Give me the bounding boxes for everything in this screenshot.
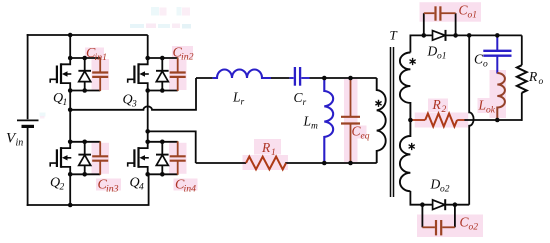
svg-text:L: L [232,90,241,105]
wire secondary top lead [410,35,521,52]
svg-text:eq: eq [361,132,370,142]
capacitor Cin2 [170,58,186,92]
highlight capacitor Co2 area [417,215,483,238]
capacitor Cin3 [92,141,108,175]
transistor Q3 [128,58,178,91]
junction Q3 diode bottom [160,88,165,93]
wire Ro top lead [521,35,523,65]
body diode of Q1 [78,58,91,91]
junction Q3 drain node [145,56,150,61]
highlight label Lok [478,98,498,113]
capacitor Co2 [422,205,455,236]
capacitor Cin1 [92,58,108,92]
wire Vin vertical lower [27,127,29,205]
wire leg1 drain Q1 [69,35,71,58]
junction Lm top [322,76,327,81]
inductor Lok [497,73,505,120]
transistor Q2 [50,142,100,175]
transistor Q4 [128,142,178,175]
highlight capacitor Cin3 [92,143,110,174]
junction bottom rail leg1 [68,203,73,208]
wire tank top left segment [196,77,213,79]
resistor Ro [517,65,527,93]
faint artifact dash row [130,24,144,28]
inductor Lr [213,70,271,79]
junction Q3 source node [145,88,150,93]
junction Q4 diode bottom [160,172,165,177]
faint artifact smudge top area [151,7,159,16]
svg-text:r: r [303,98,307,108]
svg-text:2: 2 [442,105,447,115]
junction Q3 diode top [160,56,165,61]
wire leg1 mid Q1-Q2 [69,91,71,142]
svg-text:3: 3 [131,100,137,110]
highlight label Cin4 [174,179,198,191]
highlight label Cin2 [172,46,193,58]
svg-text:m: m [311,122,318,132]
wire bottom rail [27,174,149,205]
junction Q4 drain node [145,140,150,145]
wire Vin vertical upper [27,34,29,119]
highlight capacitor Cin2 [169,59,187,90]
highlight inductor Lok band [490,70,507,118]
svg-text:L: L [303,114,312,129]
wire leg2 top corner to Q3 [147,35,149,58]
wire tank bottom right segment [285,162,377,164]
junction center tap [408,118,413,123]
svg-text:ok: ok [486,106,496,116]
junction Q4 source node [145,172,150,177]
junction Co2 right [453,202,458,207]
transformer primary winding [377,78,386,163]
junction Lm bottom [322,161,327,166]
svg-text:o: o [483,60,488,70]
wire tank top middle segment [271,77,289,79]
body diode of Q4 [156,142,169,175]
resistor R1 [246,157,286,170]
junction Ceq top [348,76,353,81]
svg-text:o: o [539,77,544,87]
svg-text:1: 1 [63,98,68,108]
svg-text:R: R [432,97,442,112]
junction Co1 left [422,33,427,38]
svg-text:in1: in1 [95,52,108,63]
junction top rail leg1 [68,33,73,38]
highlight label Cin3 [96,179,121,191]
junction rectifier output top [467,33,472,38]
wire Ro bottom lead [521,93,523,121]
svg-text:D: D [430,177,441,192]
junction phase B tap [145,129,150,134]
body diode of Q2 [78,142,91,175]
wire top rail [27,34,148,36]
transformer secondary top winding [400,53,411,121]
svg-text:1: 1 [271,148,276,158]
highlight label R2 [428,99,448,113]
junction Q2 drain node [68,140,73,145]
svg-text:in3: in3 [106,184,119,195]
svg-text:D: D [427,44,438,59]
diode Do1 [433,30,446,41]
svg-text:o2: o2 [440,185,450,195]
capacitor Ceq [341,79,360,163]
junction Co top [495,33,500,38]
dot mark secondary top [410,58,416,65]
wire tank top right segment [310,77,377,79]
dot mark primary [375,100,381,107]
junction Co2 left [420,202,425,207]
svg-text:r: r [241,98,245,108]
transformer core [391,47,394,197]
svg-text:R: R [528,69,538,84]
junction Q1 diode bottom [82,88,87,93]
capacitor Cin4 [170,141,186,175]
wire leg2 mid Q3-Q4 [147,91,149,142]
junction Q2 source node [68,172,73,177]
svg-text:4: 4 [139,183,144,193]
highlight label Ceq [351,126,367,139]
faint artifact near battery [40,113,46,117]
wire phase A with hop over leg2 [70,78,196,110]
body diode of Q3 [156,58,169,91]
wire output mid black segment [464,119,522,121]
svg-text:L: L [478,98,487,113]
transformer secondary bottom winding [400,120,411,191]
diode Do2 [433,199,446,210]
junction Co1 right [453,33,458,38]
highlight capacitor Co1 area [420,2,482,22]
junction Q4 diode top [160,140,165,145]
wire phase B [148,131,196,163]
svg-text:in4: in4 [184,184,197,195]
junction Q2 diode bottom [82,172,87,177]
svg-text:T: T [390,28,398,43]
highlight label Cin1 [85,48,104,59]
svg-text:in: in [16,138,24,149]
highlight capacitor Ceq band [344,79,358,162]
dot mark secondary bottom [409,143,415,150]
wire rectifier output vertical with hop [469,35,473,204]
wire leg1 Q2 source [69,174,71,205]
wire bottom rectifier [410,191,469,205]
highlight resistor R1 [243,155,289,170]
junction Q1 diode top [82,56,87,61]
transistor Q1 [50,58,100,91]
svg-text:R: R [261,140,271,155]
svg-text:o1: o1 [437,52,447,62]
junction phase A tap [68,108,73,113]
junction Lok bottom [495,118,500,123]
junction Ceq bottom [348,161,353,166]
capacitor Co [483,36,511,74]
highlight capacitor Cin4 [169,143,187,174]
svg-text:o1: o1 [468,11,478,21]
junction Q2 diode top [82,140,87,145]
junction Q1 drain node [68,56,73,61]
svg-text:o2: o2 [469,223,479,233]
inductor Lm [324,79,333,163]
svg-text:2: 2 [60,183,65,193]
battery Vin [17,120,39,126]
junction Q1 source node [68,88,73,93]
svg-text:in2: in2 [181,52,194,63]
capacitor Cr [289,67,309,86]
highlight capacitor Cin1 [92,59,110,90]
wire tank bottom left segment [196,162,246,164]
resistor R2 with leads [410,114,464,127]
highlight resistor R2 [415,113,469,128]
capacitor Co1 [424,6,456,35]
highlight label R1 [254,139,281,155]
